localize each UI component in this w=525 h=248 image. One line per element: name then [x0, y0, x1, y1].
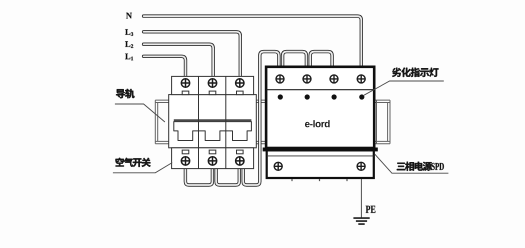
net label L3 [125, 29, 133, 36]
label 三相电源SPD leader line [375, 154, 449, 173]
net label L2 [125, 41, 133, 48]
net label L1 [125, 54, 133, 61]
net label N [126, 13, 132, 19]
label 空气开关 leader line [113, 163, 172, 173]
breaker bottom terminal screw 2 [208, 157, 216, 165]
label 导轨 (DIN rail) [116, 89, 134, 98]
DIN rail 导轨 (horizontal rail behind breaker and SPD) [155, 100, 390, 144]
breaker terminal notches [182, 91, 243, 154]
e-lord brand text [305, 120, 330, 127]
label 三相电源 (three-phase power) [397, 162, 432, 171]
breaker bottom terminal screw 3 [236, 157, 244, 165]
label 劣化指示灯 (degradation indicator) [392, 68, 438, 77]
breaker toggle plate with 3 handles [174, 122, 252, 141]
degradation indicator lamp 4 [359, 94, 364, 99]
SPD base screw right [357, 162, 365, 170]
wire jumper breaker pole2 bottom to pole3 bottom [216, 167, 239, 185]
degradation indicator lamp 1 [278, 94, 283, 99]
breaker top terminal screw 1 [181, 79, 189, 87]
wire jumper SPD terminal 2 to terminal 3 [310, 52, 332, 67]
wire L1 from source L1 to breaker pole 1 top [144, 56, 186, 78]
SPD top terminal screw 2 [303, 75, 311, 83]
breaker top terminal screw 3 [236, 79, 244, 87]
SPD base strip (三相电源SPD) [267, 150, 374, 178]
label 空气开关 (air switch) [116, 158, 151, 167]
wire breaker pole3 bottom riser up to SPD terminal 1 [243, 52, 279, 185]
wire L2 from source L2 to breaker pole 2 top [144, 44, 214, 78]
SPD module U1 main box [266, 67, 374, 148]
SPD terminal strip separator line [266, 89, 374, 91]
wire L3 from source L3 to breaker pole 3 top [144, 32, 241, 78]
ground symbol PE [353, 218, 369, 224]
wire PE ground lead [360, 179, 362, 218]
label 劣化指示灯 leader line [364, 81, 444, 95]
SPD top terminal screw 4 [357, 75, 365, 83]
air switch QF 3-pole breaker body [169, 76, 257, 168]
breaker pole divider lines [199, 76, 226, 168]
SPD base screw left [274, 162, 282, 170]
wire jumper SPD terminal 1 to terminal 2 [283, 52, 307, 67]
wire jumper breaker pole1 bottom to pole2 bottom [185, 167, 212, 185]
SPD top terminal screw 1 [276, 75, 284, 83]
degradation indicator lamp 3 [332, 94, 337, 99]
SPD base strip inner line [268, 155, 374, 157]
SPD top terminal screw 3 [330, 75, 338, 83]
SPD bottom flange band [263, 148, 378, 152]
label 导轨 leader line [115, 104, 165, 122]
wire N from source N to SPD terminal 4 [144, 16, 362, 67]
breaker plate top bar [174, 119, 252, 121]
label SPD text [432, 163, 444, 170]
breaker bottom terminal screw 1 [181, 157, 189, 165]
breaker top terminal screw 2 [208, 79, 216, 87]
PE net label [366, 206, 376, 213]
degradation indicator lamp 2 [305, 94, 310, 99]
SPD base bottom ticks [292, 179, 347, 181]
